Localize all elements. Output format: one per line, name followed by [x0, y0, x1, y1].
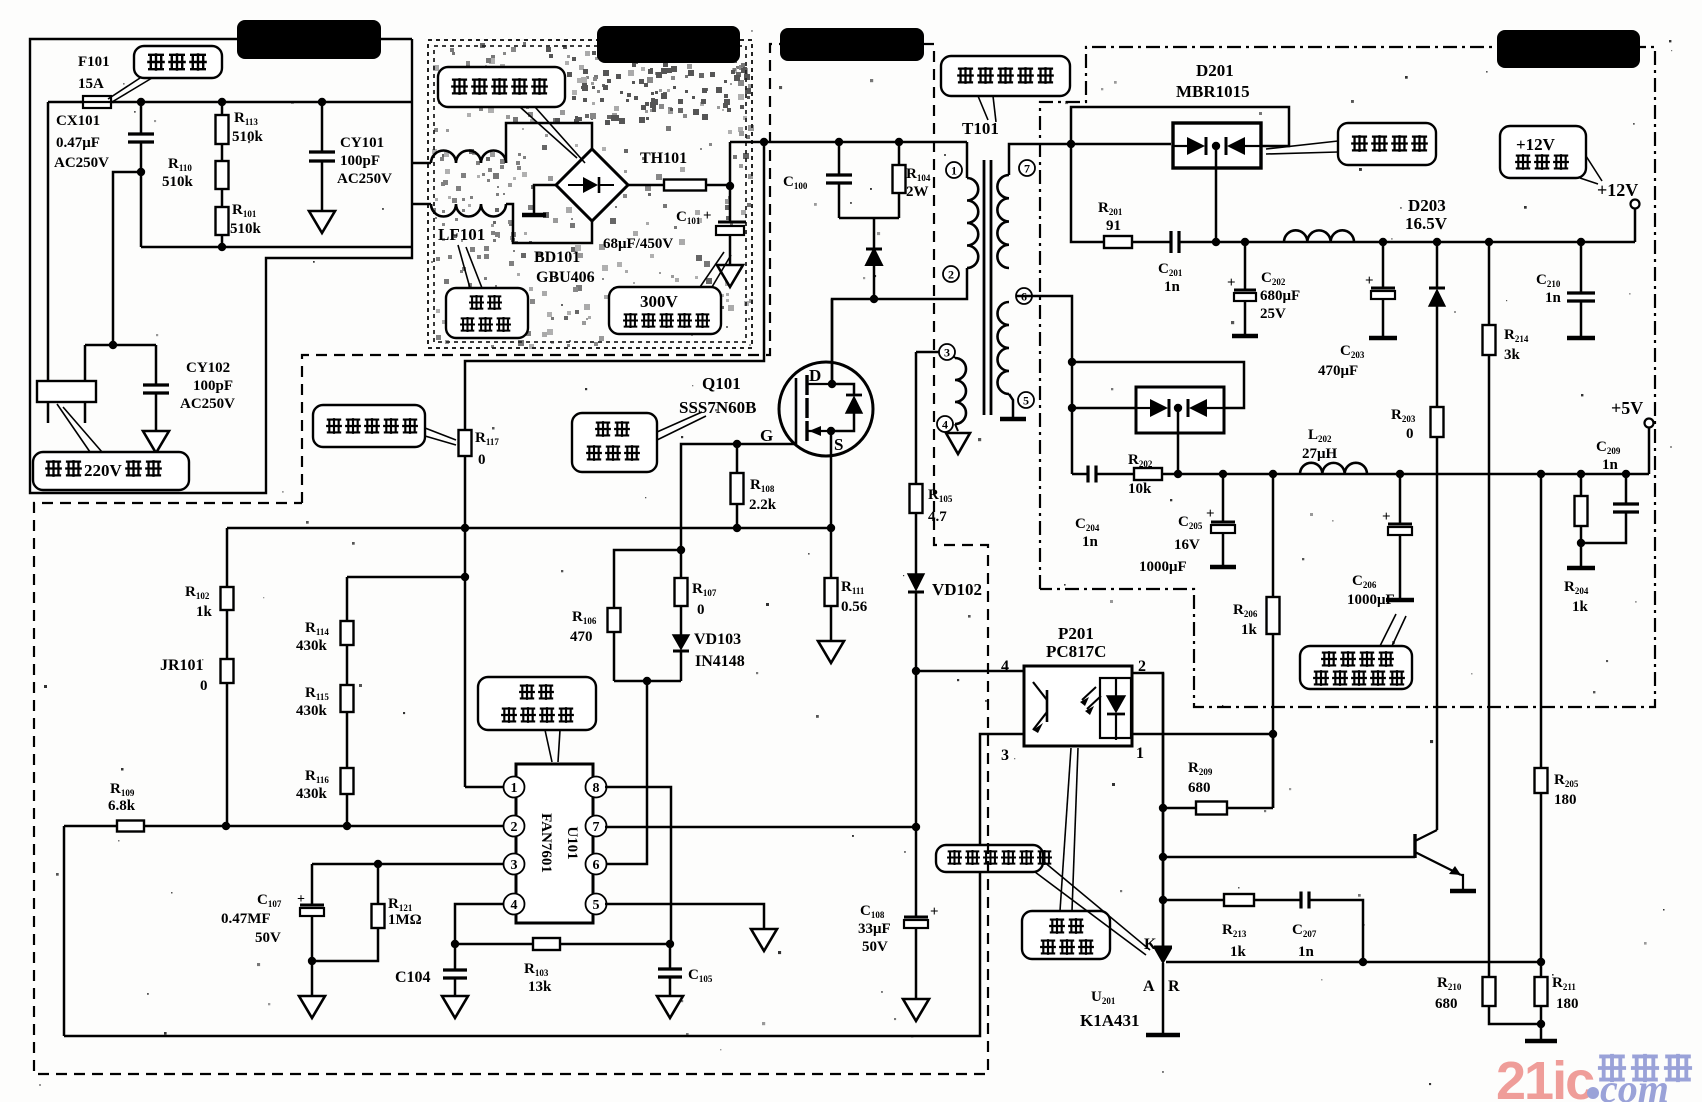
pin 6 mark	[1016, 288, 1032, 304]
Q101 channel segments	[805, 375, 808, 395]
wire D202 cathode to +5 rail	[1177, 408, 1180, 474]
svg-text:CY102: CY102	[186, 360, 230, 376]
wire R209 up to pin1 node	[1272, 734, 1275, 808]
transformer T101 core	[983, 160, 986, 415]
node aux to U101 vcc	[912, 823, 920, 831]
wire pin2 feedback line	[64, 825, 504, 828]
P201 LED	[1100, 678, 1131, 738]
svg-text:MBR1015: MBR1015	[1176, 82, 1250, 101]
callout secondary filter caps label	[1300, 646, 1412, 689]
node pin1 R206	[1269, 730, 1277, 738]
wire pin5 to ground	[1009, 394, 1013, 417]
resistor R111 current sense	[825, 578, 838, 606]
callout pointer to C101	[700, 252, 724, 287]
svg-text:27μH: 27μH	[1302, 446, 1338, 462]
wire aux supply down	[915, 671, 918, 827]
svg-text:T101: T101	[962, 119, 999, 138]
svg-text:680μF: 680μF	[1260, 288, 1300, 304]
svg-text:1k: 1k	[196, 604, 213, 620]
dual diode D202 box	[1136, 387, 1224, 433]
svg-text:F101: F101	[78, 54, 110, 70]
ground bar below R211	[1540, 1024, 1543, 1039]
wire junction to pin6	[605, 681, 647, 864]
node R116 bottom	[343, 822, 351, 830]
zener diode D203	[1436, 242, 1439, 288]
ground below pin5 line	[751, 929, 777, 951]
wire startup feed	[465, 142, 764, 430]
callout pointer to U201	[1043, 861, 1150, 950]
svg-text:AC250V: AC250V	[54, 155, 109, 171]
svg-text:K: K	[1144, 936, 1157, 953]
capacitor C202	[1244, 242, 1247, 290]
resistor R204	[1580, 474, 1583, 496]
capacitor C210	[1580, 242, 1583, 293]
capacitor C209	[1625, 474, 1628, 504]
capacitor C206	[1399, 474, 1402, 524]
svg-text:16.5V: 16.5V	[1405, 214, 1448, 233]
callout mutual filter label	[446, 288, 528, 338]
secondary winding pins 6-5	[998, 302, 1009, 394]
node JR101 bottom	[222, 822, 230, 830]
inductor LF101 upper winding	[412, 162, 431, 165]
resistor R106	[614, 550, 681, 608]
wire pin6 to D202	[1072, 407, 1136, 410]
ground below C108	[903, 999, 929, 1021]
svg-text:4: 4	[511, 898, 518, 913]
black box top center	[780, 28, 924, 61]
Q101 drain connection	[807, 383, 832, 385]
svg-text:4.7: 4.7	[928, 509, 947, 525]
wire R109 to bottom rail	[63, 826, 66, 1036]
wire C207 to ref line	[1309, 900, 1363, 962]
capacitor C101 300V filter cap	[729, 186, 732, 222]
capacitor CY101	[318, 98, 326, 106]
ground bar below C202	[1232, 334, 1258, 339]
P201 light arrows	[1082, 687, 1101, 709]
svg-text:1000μF: 1000μF	[1139, 559, 1187, 575]
svg-text:FAN7601: FAN7601	[538, 813, 554, 873]
node C206 top	[1396, 470, 1404, 478]
node C202 top	[1241, 238, 1249, 246]
svg-text:470μF: 470μF	[1318, 363, 1358, 379]
wire pin2 to drain	[832, 268, 967, 384]
node source-sense junction	[827, 524, 835, 532]
svg-text:1: 1	[1136, 745, 1144, 762]
D202 diode 1	[1136, 407, 1150, 409]
svg-text:180: 180	[1554, 792, 1577, 808]
fuse F101	[83, 96, 111, 108]
node R117 bottom on sense line	[461, 524, 469, 532]
wire AC neutral to CY102	[85, 344, 156, 347]
node VD102 to opto line	[912, 667, 920, 675]
+12V output terminal	[1634, 209, 1637, 242]
Q101 gate bar	[795, 378, 798, 444]
svg-text:+12V: +12V	[1597, 180, 1638, 200]
HV rail wire	[730, 141, 967, 144]
callout pointer to bridge	[520, 107, 577, 158]
optocoupler P201 box	[1024, 666, 1132, 746]
capacitor C107	[311, 864, 314, 905]
resistor R121	[377, 864, 380, 904]
svg-text:430k: 430k	[296, 786, 328, 802]
svg-text:220V: 220V	[84, 461, 123, 480]
aux winding T101 pins 3-4	[916, 351, 950, 354]
node R205 top	[1537, 470, 1545, 478]
black box top left	[237, 20, 381, 59]
bridge ground	[534, 185, 556, 213]
wire LF101 to bridge bottom	[506, 204, 592, 243]
svg-text:2: 2	[948, 267, 954, 281]
svg-text:5: 5	[1023, 393, 1029, 407]
svg-text:1k: 1k	[1241, 622, 1258, 638]
wire pin3 line	[312, 863, 504, 866]
diode inside bridge	[568, 184, 583, 186]
ground below C107	[311, 961, 314, 996]
wire opto pin1 line	[1132, 733, 1273, 736]
svg-text:TH101: TH101	[640, 150, 687, 167]
resistor R206	[1272, 474, 1275, 597]
callout 300V filter cap label	[609, 287, 721, 334]
svg-text:1n: 1n	[1298, 944, 1315, 960]
svg-text:BD101: BD101	[534, 249, 580, 266]
wire pin7 to aux supply	[605, 826, 916, 829]
op-amp U101 FAN7601 body	[516, 764, 593, 923]
ground below CY101	[309, 211, 335, 233]
svg-text:1n: 1n	[1602, 457, 1619, 473]
stipple background of bridge rectifier block	[431, 42, 754, 349]
resistor R203 0 ohm	[1431, 407, 1444, 437]
black box top right	[1497, 30, 1640, 68]
node loop on pin6 wire	[1068, 358, 1076, 366]
resistor R202 snubber	[1096, 473, 1134, 476]
callout pointer to LF101	[458, 245, 470, 288]
pin 2 mark	[943, 266, 959, 282]
svg-text:+: +	[1227, 275, 1236, 291]
+5V output terminal	[1648, 428, 1651, 474]
node R213 line	[1159, 896, 1167, 904]
node R103 to C105	[666, 940, 674, 948]
D201 diode 2	[1227, 137, 1245, 155]
svg-text:0: 0	[1406, 426, 1414, 442]
svg-text:680: 680	[1435, 996, 1458, 1012]
callout pointer to T101	[978, 96, 988, 120]
svg-text:A: A	[1143, 978, 1155, 995]
resistor R213	[1163, 899, 1224, 902]
pin 5 mark	[1018, 392, 1034, 408]
capacitor C207	[1254, 899, 1301, 902]
node R121 top	[374, 860, 382, 868]
svg-text:100pF: 100pF	[340, 153, 380, 169]
svg-text:2: 2	[511, 820, 518, 835]
node C210 top	[1577, 238, 1585, 246]
svg-text:510k: 510k	[230, 221, 262, 237]
resistor R114	[346, 577, 349, 621]
svg-text:0.47μF: 0.47μF	[56, 135, 100, 151]
capacitor CX101	[137, 98, 145, 106]
wire D201 cathode to +12 rail	[1215, 146, 1218, 242]
svg-text:SSS7N60B: SSS7N60B	[679, 398, 756, 417]
svg-text:1k: 1k	[1572, 599, 1589, 615]
svg-text:1n: 1n	[1545, 290, 1562, 306]
wire R117 to U101 pin1	[464, 528, 467, 787]
svg-text:3k: 3k	[1504, 347, 1521, 363]
svg-text:2W: 2W	[906, 184, 929, 200]
capacitor CY102	[155, 345, 158, 385]
node CX101 bottom junction	[137, 168, 145, 176]
AC input section outer box	[30, 39, 412, 493]
ground bar below C206	[1386, 598, 1414, 603]
wire R106 VD103 bottom junction	[614, 680, 681, 683]
svg-text:1MΩ: 1MΩ	[388, 912, 422, 928]
node R106 R107 top	[677, 546, 685, 554]
svg-text:AC250V: AC250V	[337, 171, 392, 187]
callout +12V output label	[1500, 126, 1586, 178]
svg-text:8: 8	[593, 781, 600, 796]
callout pointer to P201	[1060, 748, 1071, 911]
diode VD101 snubber clamp	[873, 218, 876, 249]
node R214 top	[1485, 238, 1493, 246]
ground below C104	[442, 996, 468, 1018]
svg-text:68μF/450V: 68μF/450V	[603, 236, 673, 252]
svg-text:R: R	[1168, 978, 1180, 995]
thermistor TH101	[628, 184, 664, 187]
svg-text:1: 1	[511, 781, 518, 796]
callout startup resistor label	[313, 405, 425, 447]
resistor R107	[680, 550, 683, 578]
callout switching transistor label	[572, 413, 657, 472]
svg-text:com: com	[1600, 1066, 1669, 1102]
svg-text:+: +	[703, 208, 712, 224]
svg-text:VD103: VD103	[694, 631, 741, 648]
wire pin8 to C105	[605, 787, 671, 944]
capacitor C204 snubber	[1086, 466, 1089, 483]
svg-text:D: D	[809, 366, 821, 385]
svg-text:1n: 1n	[1082, 534, 1099, 550]
error amp U201 K1A431	[1154, 946, 1172, 949]
svg-text:7: 7	[593, 820, 600, 835]
node feedback tap	[461, 573, 469, 581]
inductor LF101 lower winding	[412, 203, 431, 206]
wire R210 bottom	[1489, 1006, 1541, 1024]
callout pointer to plug	[57, 404, 90, 452]
diode VD102	[915, 513, 918, 574]
wire LF101 to bridge top	[506, 123, 592, 163]
node C203 top	[1379, 238, 1387, 246]
svg-text:D201: D201	[1196, 61, 1234, 80]
node C101 top	[726, 182, 734, 190]
wire pin4 line	[455, 904, 504, 944]
node snubber R104 top	[895, 138, 903, 146]
transformer T101 primary winding	[967, 178, 978, 268]
U101 pin 8	[586, 777, 607, 798]
U101 pin 5	[586, 894, 607, 915]
callout pointer to D201	[1266, 141, 1338, 149]
wire VD102 node to opto pin4	[916, 670, 1024, 673]
callout pointer to Q101	[657, 412, 702, 432]
resistor R103 13k	[533, 938, 560, 950]
wire reference line	[1166, 961, 1541, 964]
callout optocoupler label	[1022, 911, 1110, 959]
svg-text:470: 470	[570, 629, 593, 645]
Q101 source arrow	[807, 430, 831, 432]
pin 7 mark	[1019, 160, 1035, 176]
svg-text:1n: 1n	[1164, 279, 1181, 295]
callout pointer to fuse	[108, 78, 140, 99]
svg-text:U101: U101	[564, 826, 580, 859]
wire snubber bottoms	[839, 217, 899, 220]
resistor R214	[1488, 242, 1491, 325]
AC plug symbol	[37, 381, 96, 402]
dual diode D201 box	[1173, 123, 1261, 168]
svg-text:S: S	[834, 435, 843, 454]
svg-text:300V: 300V	[640, 292, 679, 311]
svg-text:CY101: CY101	[340, 135, 384, 151]
U101 pin 2	[504, 816, 525, 837]
node +12 rail at D201	[1212, 238, 1220, 246]
ground bar below U201	[1146, 1033, 1180, 1038]
resistor R115	[346, 645, 349, 685]
callout switching transformer label	[941, 56, 1070, 96]
resistor R110	[221, 144, 224, 161]
svg-text:1k: 1k	[1230, 944, 1247, 960]
node snubber to drain	[870, 295, 878, 303]
svg-text:510k: 510k	[162, 174, 194, 190]
U101 pin 6	[586, 854, 607, 875]
diode VD103	[680, 606, 683, 635]
node D201 common cathode	[1212, 142, 1220, 150]
resistor R105	[915, 352, 918, 484]
U101 pin 7	[586, 816, 607, 837]
svg-text:13k: 13k	[528, 979, 552, 995]
svg-text:4: 4	[1001, 658, 1009, 675]
node C207 to ref	[1359, 958, 1367, 966]
svg-text:25V: 25V	[1260, 306, 1286, 322]
wire gate line	[681, 444, 796, 549]
svg-text:PC817C: PC817C	[1046, 642, 1106, 661]
capacitor C205	[1222, 474, 1225, 522]
svg-text:+: +	[297, 892, 305, 907]
svg-text:2.2k: 2.2k	[749, 497, 777, 513]
svg-text:430k: 430k	[296, 638, 328, 654]
node to U101 pin6	[643, 677, 651, 685]
svg-text:0: 0	[478, 452, 486, 468]
resistor R205	[1540, 474, 1543, 768]
node C209 top	[1622, 470, 1630, 478]
svg-text:0: 0	[697, 602, 705, 618]
pin 3 mark	[939, 344, 955, 360]
svg-text:P201: P201	[1058, 624, 1094, 643]
U101 pin 4	[504, 894, 525, 915]
transistor Q201	[1413, 834, 1416, 858]
svg-text:+: +	[930, 904, 939, 920]
svg-text:JR101: JR101	[160, 657, 204, 674]
wire opto pin2 to K line	[1132, 673, 1163, 949]
primary side dashed boundary	[34, 44, 988, 1074]
wire pin1 to startup	[465, 786, 504, 789]
svg-text:0.56: 0.56	[841, 599, 868, 615]
wire to Q201 base	[1163, 856, 1415, 859]
inductor L201 on +12 rail	[1284, 230, 1354, 242]
node R211 top	[1537, 958, 1545, 966]
wire K line lower part	[1162, 673, 1165, 949]
node D202 common cathode	[1174, 404, 1182, 412]
callout error detect label	[936, 845, 1043, 872]
svg-text:16V: 16V	[1174, 537, 1200, 553]
P201 phototransistor	[1046, 690, 1049, 722]
node pin4 to C104	[451, 940, 459, 948]
capacitor C203	[1382, 242, 1385, 288]
resistor R113	[218, 98, 226, 106]
stipple box dashed border	[428, 40, 752, 348]
svg-text:3: 3	[1001, 747, 1009, 764]
callout dual diode label	[1338, 123, 1436, 165]
svg-text:+5V: +5V	[1611, 398, 1643, 418]
resistor R211	[1540, 962, 1543, 977]
resistor JR101 jumper	[226, 610, 229, 659]
svg-text:IN4148: IN4148	[695, 653, 745, 670]
svg-text:0: 0	[200, 678, 208, 694]
wire source sense line	[227, 527, 831, 530]
svg-text:1: 1	[951, 163, 957, 177]
ground bar below C205	[1210, 565, 1236, 570]
callout bridge label	[438, 67, 565, 107]
resistor R101	[221, 189, 224, 207]
svg-text:AC250V: AC250V	[180, 396, 235, 412]
secondary winding pins 7-6	[997, 175, 1009, 268]
svg-text:15A: 15A	[78, 76, 104, 92]
wire D202 parallel loop	[1072, 362, 1244, 408]
U101 pin 1	[504, 777, 525, 798]
wire source down	[830, 431, 833, 663]
D201 diode 1	[1173, 145, 1187, 147]
ground below C105	[657, 996, 683, 1018]
svg-text:+: +	[1365, 273, 1374, 289]
resistor R108 gate-source	[733, 440, 741, 448]
capacitor C100	[838, 142, 841, 175]
svg-text:100pF: 100pF	[193, 378, 233, 394]
inductor L202	[1300, 463, 1367, 474]
resistor R109 in feedback	[117, 821, 144, 832]
callout pointer to U101	[545, 730, 552, 762]
transformer T101 primary top lead	[966, 142, 969, 178]
node startup tap	[760, 138, 768, 146]
ground bar below pin5	[1000, 417, 1026, 422]
bridge rectifier BD101 diamond	[556, 149, 628, 221]
svg-text:VD102: VD102	[932, 580, 982, 599]
capacitor C104	[454, 944, 457, 970]
svg-text:3: 3	[511, 858, 518, 873]
svg-text:430k: 430k	[296, 703, 328, 719]
wire pin7 line to D201	[1009, 144, 1171, 175]
capacitor C108 vcc reservoir	[915, 827, 918, 917]
Q101 body diode	[832, 384, 854, 395]
svg-text:4: 4	[942, 417, 948, 431]
secondary side dash-dot boundary	[1040, 47, 1655, 707]
svg-text:680: 680	[1188, 780, 1211, 796]
callout pointer to R117	[425, 428, 456, 440]
svg-text:C104: C104	[395, 969, 431, 986]
svg-text:+: +	[1382, 509, 1391, 525]
ground below CY102	[143, 431, 169, 453]
wire bridge output up to HV rail	[729, 142, 732, 186]
U101 pin 3	[504, 854, 525, 875]
wire to AC neutral	[113, 172, 141, 345]
svg-text:10k: 10k	[1128, 481, 1152, 497]
wire D201 parallel loop	[1071, 107, 1289, 146]
svg-text:GBU406: GBU406	[536, 269, 595, 286]
svg-text:33μF: 33μF	[858, 921, 891, 937]
svg-text:K1A431: K1A431	[1080, 1011, 1140, 1030]
